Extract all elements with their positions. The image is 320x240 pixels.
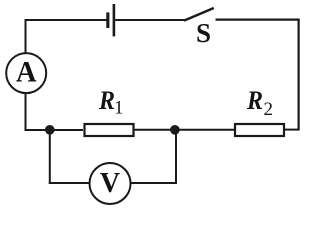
wire R1 to R2 <box>135 129 236 131</box>
svg-text:V: V <box>100 168 120 199</box>
battery B1 long plate <box>113 4 116 36</box>
svg-text:R: R <box>98 86 115 115</box>
resistor R1 body <box>85 124 134 136</box>
battery B1 short plate <box>106 12 109 28</box>
wire right vertical <box>298 19 300 131</box>
voltmeter V1 circle <box>90 163 131 204</box>
node junction dot right <box>170 125 180 135</box>
wire voltmeter branch bottom-right horizontal <box>131 182 178 184</box>
wire battery to switch <box>115 19 184 21</box>
wire voltmeter branch bottom-left horizontal <box>49 182 90 184</box>
wire left vertical lower <box>25 94 27 132</box>
wire middle left <box>25 129 84 131</box>
ammeter A1 circle <box>6 53 46 93</box>
svg-text:A: A <box>16 56 37 89</box>
resistor R2 body <box>235 124 284 136</box>
switch S blade <box>184 8 214 21</box>
wire switch to top-right corner <box>216 19 300 21</box>
svg-text:2: 2 <box>264 99 274 120</box>
wire voltmeter branch right vertical <box>175 129 177 184</box>
wire voltmeter branch left vertical <box>49 130 51 184</box>
svg-text:R: R <box>246 86 263 115</box>
svg-text:S: S <box>196 18 211 48</box>
svg-text:1: 1 <box>114 98 124 119</box>
wire R2 to right vertical <box>285 129 300 131</box>
node junction dot left <box>45 125 55 135</box>
wire left vertical upper <box>25 19 27 53</box>
wire top-left horizontal <box>25 19 107 21</box>
